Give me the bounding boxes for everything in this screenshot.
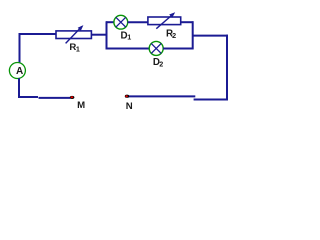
lamp D2 bbox=[149, 41, 163, 55]
node right junction vertical wire bbox=[192, 21, 194, 49]
ammeter A bbox=[9, 63, 25, 79]
wire bottom-left segment 1 bbox=[18, 96, 38, 98]
wire ammeter bottom vertical bbox=[18, 78, 20, 98]
node left junction vertical wire bbox=[106, 21, 108, 49]
wire bottom-left segment 2 bbox=[39, 97, 71, 99]
wire D2 to right junction bbox=[163, 48, 194, 50]
svg-text:M: M bbox=[77, 100, 85, 111]
svg-text:A: A bbox=[16, 66, 23, 77]
wire R1 to left junction bbox=[91, 34, 107, 36]
wire D1 to R2 bbox=[128, 21, 149, 23]
wire bottom branch to D2 bbox=[106, 48, 150, 50]
wire N to jog bbox=[129, 95, 196, 97]
svg-text:N: N bbox=[126, 101, 133, 112]
svg-text:1: 1 bbox=[127, 32, 131, 41]
rheostat R2 (box with arrow) bbox=[148, 13, 181, 29]
resistor R1 (rheostat box with arrow) bbox=[56, 26, 91, 44]
wire top branch to D1 bbox=[106, 21, 115, 23]
wire R2 to right junction bbox=[181, 21, 194, 23]
wire top-left vertical bbox=[19, 33, 21, 63]
wire bottom-right lower segment bbox=[194, 99, 228, 101]
svg-text:2: 2 bbox=[172, 31, 176, 40]
lamp D1 bbox=[114, 15, 128, 29]
svg-text:1: 1 bbox=[76, 45, 80, 54]
svg-text:2: 2 bbox=[159, 60, 163, 69]
terminal N bbox=[125, 95, 129, 98]
wire middle output bbox=[192, 35, 228, 37]
terminal M bbox=[70, 96, 75, 99]
wire top-left horizontal bbox=[19, 33, 57, 35]
wire right vertical bbox=[226, 35, 228, 101]
